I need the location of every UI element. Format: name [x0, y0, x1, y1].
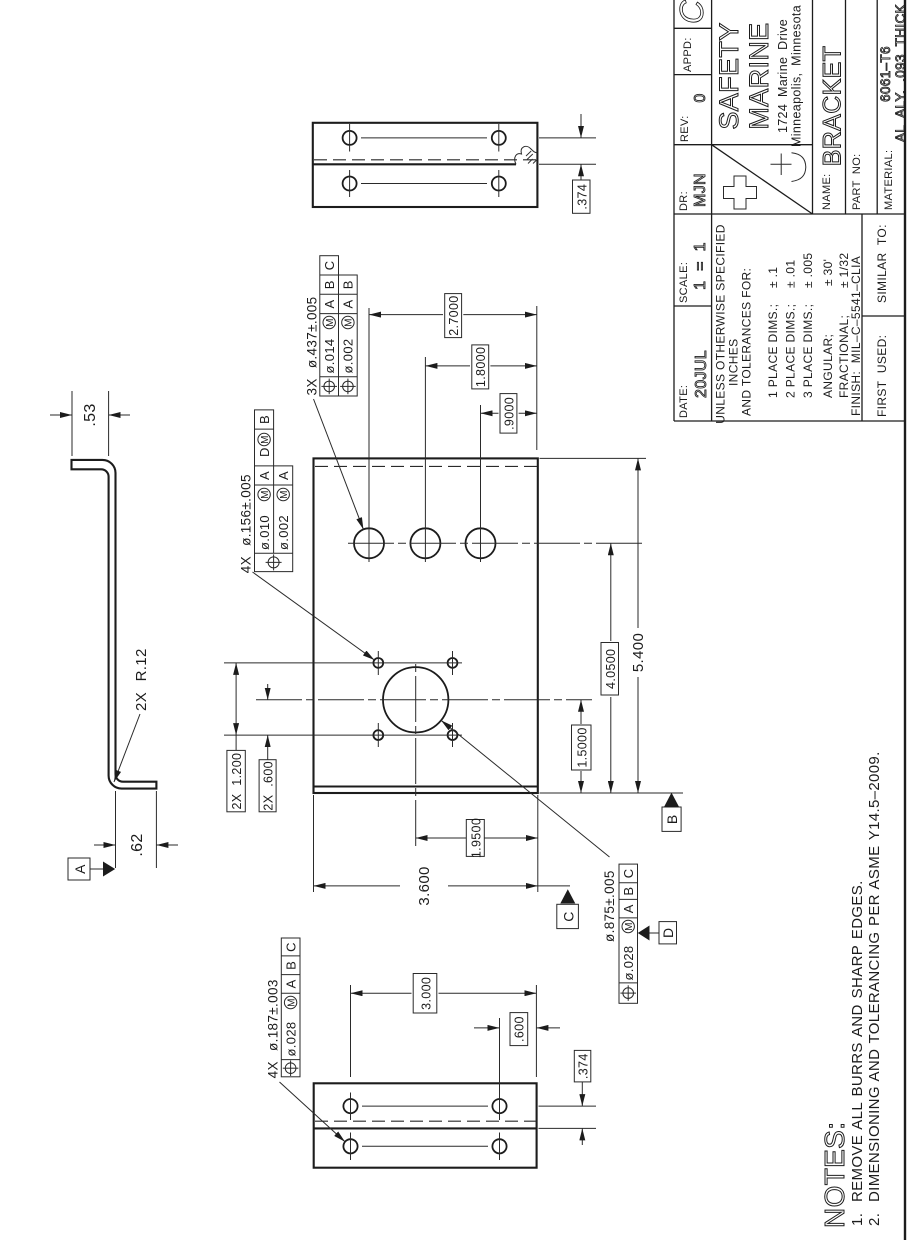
- svg-text:1.9500: 1.9500: [469, 818, 483, 858]
- svg-text:M: M: [260, 435, 271, 444]
- title block row1 bottom line: [711, 0, 713, 421]
- svg-text:2 PLACE DIMS.;: 2 PLACE DIMS.;: [784, 304, 798, 398]
- svg-text:C: C: [284, 942, 299, 952]
- title block vertical FIRST USED/SIMILAR TO: [862, 315, 905, 317]
- dimension 2.7000 boxed label: [445, 294, 462, 338]
- title block vertical DR/REV and logo/company: [674, 144, 813, 146]
- FCF-3 leader to large hole: [441, 720, 609, 857]
- title block vertical REV/APPD: [674, 74, 712, 76]
- svg-text:2X 1.200: 2X 1.200: [230, 753, 244, 810]
- svg-text:M: M: [260, 490, 271, 499]
- dimension 2.7000 common extension line (plate bottom extended right): [536, 306, 538, 450]
- svg-text:.9000: .9000: [502, 397, 516, 430]
- large hole .875: [383, 667, 448, 732]
- dimension 1.9500 boxed label: [466, 820, 484, 857]
- svg-text:INCHES: INCHES: [727, 339, 741, 386]
- svg-text:ø.002: ø.002: [341, 339, 356, 374]
- svg-text:MARINE: MARINE: [744, 22, 774, 129]
- svg-text:M: M: [279, 490, 290, 499]
- dimension 1.8000 boxed label: [472, 345, 489, 389]
- dimension 2.7000 line upper segment: [369, 314, 443, 316]
- svg-text:BRACKET: BRACKET: [819, 46, 847, 167]
- title block top border: [673, 0, 675, 421]
- centerline hole H2 extended to dim 1.8000: [424, 357, 426, 562]
- svg-text:A: A: [284, 979, 299, 988]
- Z-profile side view outline: [72, 460, 157, 789]
- dimension 2X 1.200 boxed label: [227, 750, 245, 811]
- svg-text:.62: .62: [129, 833, 146, 856]
- small holes left column centerline: [224, 734, 462, 736]
- dimension .600 boxed label: [510, 1013, 528, 1046]
- dimension .9000 line upper segment: [481, 412, 499, 414]
- svg-text:2.7000: 2.7000: [447, 295, 461, 335]
- title block line under PART NO row: [876, 0, 878, 214]
- svg-text:1.: 1.: [849, 1213, 866, 1226]
- FCF-3 frame: [619, 864, 638, 1003]
- svg-text:REMOVE ALL BURRS AND SHARP EDG: REMOVE ALL BURRS AND SHARP EDGES.: [849, 880, 866, 1202]
- small hole S3 (bottom left): [448, 730, 458, 740]
- svg-text:DR:: DR:: [678, 191, 690, 211]
- svg-text:± .01: ± .01: [784, 260, 798, 288]
- datum D symbol under FCF-3: [638, 926, 650, 941]
- svg-text:.374: .374: [575, 184, 589, 210]
- dimension 2X .600 boxed label: [259, 760, 276, 812]
- left view hole L2 (x133.9 y350.5): [343, 1099, 357, 1113]
- hole H2 (middle of 3X .437): [410, 528, 440, 558]
- svg-text:DIMENSIONING AND TOLERANCING P: DIMENSIONING AND TOLERANCING PER ASME Y1…: [866, 751, 883, 1202]
- right view bend line dashed: [314, 159, 536, 161]
- dimension .600 extension line (bottom hole row extended right): [499, 1018, 501, 1095]
- left end view outline: [314, 1083, 537, 1167]
- svg-text:0: 0: [692, 93, 709, 102]
- svg-text:A: A: [257, 471, 272, 480]
- dimension 3.600 line lower segment: [448, 885, 538, 887]
- FCF-1 frame row1: [320, 256, 339, 396]
- svg-text:± 30': ± 30': [821, 259, 835, 286]
- dimension 4.0500 boxed label: [601, 643, 619, 696]
- small hole S1 (top left): [373, 730, 383, 740]
- svg-text:M: M: [624, 922, 635, 931]
- title block line under logo and company: [812, 0, 814, 214]
- dimension 3.600 extension line (plate top extended left): [313, 795, 315, 892]
- left view hole L3 (x93.7 y499.5): [492, 1139, 506, 1153]
- svg-text:B: B: [284, 961, 299, 970]
- svg-text:Minneapolis, Minnesota: Minneapolis, Minnesota: [790, 5, 804, 147]
- svg-text:ø.028: ø.028: [284, 1022, 299, 1057]
- sheet border bottom line: [904, 0, 906, 1240]
- svg-text:APPD:: APPD:: [682, 37, 694, 72]
- dimension 2X 1.200 line with arrows: [235, 663, 237, 735]
- FCF-4 leader to hole L1: [280, 1082, 346, 1142]
- svg-text:2X R.12: 2X R.12: [133, 648, 150, 711]
- svg-text:DATE:: DATE:: [678, 385, 690, 418]
- main front view outline: [314, 458, 538, 793]
- FCF-2 frame: [255, 410, 293, 572]
- dimension 3.000 line lower segment: [439, 992, 537, 994]
- dimension 5.400 extension line (plate left edge extended down): [540, 792, 684, 794]
- svg-text:C: C: [561, 911, 577, 921]
- left view hole L1 (x93.7 y350.5): [343, 1139, 357, 1153]
- dimension 1.9500 extension line (plate bottom extended left): [537, 795, 539, 892]
- left view hole L4 (x133.9 y499.5): [492, 1099, 506, 1113]
- FCF-2 leader to small hole S2: [253, 572, 375, 660]
- svg-text:6061–T6: 6061–T6: [878, 46, 893, 102]
- FCF-1 frame row2: [339, 275, 358, 396]
- svg-text:ANGULAR;: ANGULAR;: [821, 334, 835, 398]
- right view face edge line: [313, 163, 516, 165]
- dimension 2X .600 line with outside arrows: [267, 747, 269, 760]
- hole H1 (top of 3X .437): [354, 528, 384, 558]
- datum A symbol: [68, 858, 90, 880]
- small hole S2 (top right): [373, 658, 383, 668]
- dimension .62 extension lines: [115, 791, 117, 868]
- svg-text:± .1: ± .1: [766, 267, 780, 288]
- right view hole R4 (x1102.1 y498.8): [492, 131, 506, 145]
- svg-text:NAME:: NAME:: [821, 173, 833, 210]
- svg-text:ø.028: ø.028: [621, 946, 636, 981]
- svg-text:3.600: 3.600: [416, 866, 433, 905]
- svg-text:SAFETY: SAFETY: [714, 22, 744, 129]
- svg-text:ø.002: ø.002: [276, 515, 291, 550]
- centerline hole H1 extended to dim 2.7000: [368, 308, 370, 562]
- svg-text:4X ø.156±.005: 4X ø.156±.005: [239, 474, 254, 573]
- svg-text:1.8000: 1.8000: [474, 347, 488, 387]
- logo medical cross: [724, 176, 757, 209]
- svg-text:REV:: REV:: [679, 115, 691, 142]
- svg-text:B: B: [341, 280, 356, 289]
- left view dim .374 boxed label: [574, 1050, 591, 1082]
- left view dim .374 arrows: [581, 1128, 583, 1145]
- right view hole R2 (x1102.1 y349.6): [343, 131, 357, 145]
- right view hole column centerline right: [361, 137, 487, 139]
- dimension .9000 boxed label: [500, 394, 517, 434]
- svg-text:B: B: [621, 887, 636, 896]
- large hole horizontal centerline: [415, 661, 417, 846]
- dimension 1.5000 line right segment: [580, 700, 582, 724]
- logo anchor: [771, 153, 806, 182]
- dimension 1.5000 line left segment: [580, 771, 582, 793]
- right view hole R3 (x1056.5 y498.8): [492, 177, 506, 191]
- title block line under tolerance cell: [861, 214, 863, 421]
- svg-text:3.000: 3.000: [420, 977, 434, 1010]
- svg-text:MJN: MJN: [692, 173, 709, 207]
- svg-text:± .005: ± .005: [801, 253, 815, 288]
- svg-text:B: B: [257, 415, 272, 424]
- svg-text:A: A: [621, 904, 636, 913]
- dimension 1.8000 line lower segment: [490, 365, 536, 367]
- common centerline of 3X holes: [348, 542, 646, 544]
- svg-text:20JUL: 20JUL: [693, 350, 710, 398]
- right view break squiggle with hatching: [515, 146, 538, 164]
- right view hole ticks: [349, 170, 351, 197]
- dimension 2.7000 line lower segment: [463, 314, 537, 316]
- small hole row ticks bottom: [452, 723, 454, 747]
- svg-text:MATERIAL:: MATERIAL:: [883, 150, 895, 210]
- svg-text:4.0500: 4.0500: [604, 649, 618, 689]
- small holes right column centerline: [224, 662, 462, 664]
- hole H3 (bottom of 3X .437): [466, 528, 496, 558]
- left view dim .374 extension lines: [539, 1127, 597, 1129]
- left view hole column centerline right: [362, 1105, 488, 1107]
- svg-text:4X ø.187±.003: 4X ø.187±.003: [266, 979, 281, 1078]
- centerline hole H3 extended to dim .9000: [480, 405, 482, 562]
- main view bend line dashed (right): [315, 465, 537, 467]
- svg-text:.53: .53: [82, 403, 99, 426]
- svg-text:D: D: [257, 447, 272, 457]
- svg-text:3 PLACE DIMS.;: 3 PLACE DIMS.;: [801, 304, 815, 398]
- dimension 3.000 boxed label: [413, 974, 437, 1014]
- svg-text:M: M: [325, 318, 336, 327]
- dimension 1.9500 line lower segment: [485, 837, 538, 839]
- svg-text:3X ø.437±.005: 3X ø.437±.005: [304, 296, 319, 395]
- large hole vertical centerline: [256, 699, 592, 701]
- dimension 5.400 line left segment: [637, 677, 639, 793]
- FCF-1 leader to hole H1: [314, 399, 364, 529]
- dimension 3.000 / .600 extension line (view bottom edge extended right): [535, 985, 537, 1077]
- svg-text:ø.875±.005: ø.875±.005: [602, 870, 617, 942]
- svg-text:A: A: [276, 471, 291, 480]
- svg-text:PART NO:: PART NO:: [851, 153, 863, 210]
- left view face edge line: [314, 1127, 537, 1129]
- right end view outline: [313, 123, 538, 207]
- svg-text:.600: .600: [513, 1016, 527, 1042]
- svg-text:A: A: [341, 299, 356, 308]
- FCF-4 frame: [281, 938, 300, 1077]
- svg-text:D: D: [660, 928, 676, 938]
- dimension .600 arrows outside: [474, 1027, 500, 1029]
- dimension 1.9500 line upper segment: [416, 837, 466, 839]
- svg-text:1 = 1: 1 = 1: [692, 242, 709, 290]
- svg-text:C: C: [673, 0, 710, 24]
- dimension 1.8000 line upper segment: [425, 365, 470, 367]
- dimension 3.000 extension line (top hole row extended right): [350, 985, 352, 1077]
- dimension 3.000 line upper segment: [351, 992, 412, 994]
- svg-text:FIRST USED:: FIRST USED:: [875, 335, 889, 417]
- svg-text:SIMILAR TO:: SIMILAR TO:: [875, 224, 889, 303]
- svg-text:1724 Marine Drive: 1724 Marine Drive: [776, 19, 790, 133]
- title block vertical main divider: [674, 213, 905, 215]
- svg-text:5.400: 5.400: [630, 633, 647, 672]
- title block left border: [674, 420, 905, 422]
- small hole row ticks top: [377, 723, 379, 747]
- dimension 3.600 line upper segment: [314, 885, 401, 887]
- svg-text:ø.010: ø.010: [257, 515, 272, 550]
- logo diagonal: [712, 145, 813, 214]
- right view hole R1 (x1056.5 y349.6): [343, 177, 357, 191]
- right view dim .374 boxed label: [573, 180, 591, 213]
- dimension .62 arrows: [94, 844, 116, 846]
- svg-text:A: A: [72, 864, 88, 874]
- svg-text:M: M: [286, 998, 297, 1007]
- dimension .53 extension lines: [71, 391, 73, 456]
- left view hole column centerline left: [362, 1145, 488, 1147]
- svg-text:2X .600: 2X .600: [261, 761, 275, 811]
- svg-text:NOTES:: NOTES:: [819, 1122, 850, 1228]
- left view hole ticks: [350, 1133, 352, 1161]
- svg-text:A: A: [322, 299, 337, 308]
- left view bend line dashed: [315, 1120, 536, 1122]
- dimension .9000 line lower segment: [519, 412, 537, 414]
- svg-text:1.5000: 1.5000: [576, 727, 590, 767]
- right view hole column centerline left: [361, 183, 487, 185]
- svg-text:C: C: [322, 261, 337, 271]
- svg-text:SCALE:: SCALE:: [678, 262, 690, 303]
- svg-text:2.: 2.: [866, 1213, 883, 1226]
- svg-text:UNLESS OTHERWISE SPECIFIED: UNLESS OTHERWISE SPECIFIED: [714, 224, 728, 424]
- svg-text:.374: .374: [576, 1053, 590, 1079]
- svg-text:C: C: [621, 869, 636, 879]
- dimension .53 arrows: [50, 414, 72, 416]
- svg-text:B: B: [664, 814, 680, 824]
- svg-text:AND TOLERANCES FOR:: AND TOLERANCES FOR:: [740, 268, 754, 416]
- dimension 4.0500 line right segment: [610, 543, 612, 641]
- right view dim .374 arrows: [580, 164, 582, 180]
- svg-text:B: B: [322, 280, 337, 289]
- dimension 5.400 extension line (plate right edge extended down): [540, 457, 647, 459]
- svg-text:M: M: [344, 318, 355, 327]
- svg-text:FINISH: MIL–C–5541–CLIA: FINISH: MIL–C–5541–CLIA: [849, 256, 863, 416]
- title block vertical APPD/C: [674, 27, 712, 29]
- svg-text:ø.014: ø.014: [322, 339, 337, 374]
- main view bend edge line (left): [314, 785, 538, 787]
- dimension 5.400 line right segment: [637, 458, 639, 628]
- title block vertical DATE/SCALE: [674, 305, 712, 307]
- svg-text:1 PLACE DIMS.;: 1 PLACE DIMS.;: [766, 304, 780, 398]
- datum B symbol: [662, 807, 681, 831]
- datum C symbol: [557, 904, 579, 928]
- dimension 4.0500 line left segment: [610, 697, 612, 793]
- dimension 1.5000 boxed label: [572, 725, 592, 770]
- right view dim .374 extension lines: [539, 163, 596, 165]
- title block line under NAME row: [845, 0, 847, 214]
- svg-text:AL ALY. .093 THICK: AL ALY. .093 THICK: [893, 4, 908, 142]
- small hole S4 (bottom right): [448, 658, 458, 668]
